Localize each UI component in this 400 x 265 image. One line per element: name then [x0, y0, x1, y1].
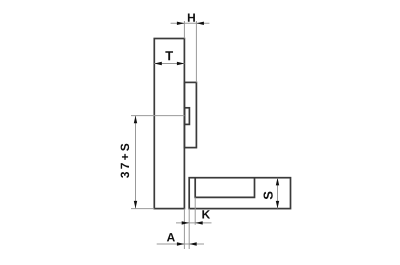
bottom shelf: [189, 178, 290, 209]
T dimension line: [154, 63, 184, 65]
S arrow up: [276, 178, 279, 186]
label K: [202, 210, 210, 218]
H extension line right: [195, 21, 197, 82]
label T: [165, 51, 173, 60]
A arrow right: [189, 242, 197, 245]
S arrow down: [276, 201, 279, 209]
hinge bump: [185, 108, 190, 125]
shelf inner recess: [195, 178, 254, 198]
label 37+S: [121, 144, 130, 178]
37+S top extension line: [131, 115, 185, 117]
K dimension line: [176, 222, 212, 224]
A dimension line: [157, 243, 204, 245]
H arrow left: [177, 22, 185, 25]
label H: [188, 14, 195, 22]
H extension line left: [183, 21, 185, 39]
K extension line: [194, 197, 196, 224]
S dimension line: [277, 178, 279, 209]
37+S bottom extension tail: [131, 208, 154, 210]
A extension line right: [188, 209, 190, 249]
label S: [264, 192, 273, 200]
K arrow left: [182, 221, 190, 224]
37+S arrow up: [134, 116, 137, 124]
H dimension line: [171, 22, 210, 24]
A arrow left: [177, 242, 185, 245]
A extension line left: [183, 209, 185, 249]
37+S dimension line: [135, 116, 137, 209]
T arrow right: [177, 62, 185, 65]
K arrow right: [195, 221, 203, 224]
T arrow left: [154, 62, 162, 65]
label A: [167, 233, 175, 241]
H arrow right: [196, 22, 204, 25]
37+S arrow down: [134, 201, 137, 209]
door panel: [154, 39, 184, 209]
hinge plate: [184, 82, 196, 147]
